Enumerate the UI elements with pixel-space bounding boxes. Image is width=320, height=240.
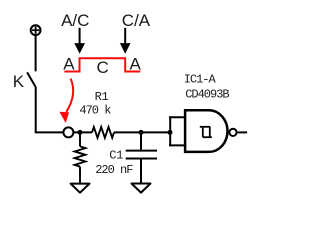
switch K blade — [27, 72, 36, 87]
NAND gate IC1-A CD4093B body — [185, 110, 227, 152]
wire upper input stub — [169, 116, 186, 118]
resistor R1 (horizontal zigzag) — [92, 127, 114, 138]
ground (below pull-down resistor) — [71, 184, 90, 193]
wire from switch down and right to node — [36, 87, 64, 132]
capacitor C1 — [126, 132, 157, 183]
svg-text:C/A: C/A — [122, 11, 151, 30]
output wire — [238, 131, 248, 133]
svg-text:A/C: A/C — [61, 11, 89, 30]
junction dot (gate input) — [168, 130, 173, 135]
red arrow (from waveform to node) — [59, 79, 73, 124]
wire R1 to C1 node — [114, 131, 170, 133]
svg-text:C: C — [97, 58, 109, 77]
svg-text:A: A — [63, 54, 75, 73]
wire from + terminal to switch — [35, 36, 37, 72]
junction dot (node / pull-down resistor) — [78, 130, 83, 135]
junction dot (C1 branch) — [139, 130, 144, 135]
wire node to R1 — [74, 131, 93, 133]
ground (below C1) — [132, 184, 151, 193]
output inversion bubble — [229, 129, 236, 136]
arrow C/A (black, pointing down at falling edge) — [120, 28, 131, 54]
waveform (red pulse A-C-A) — [64, 58, 140, 71]
svg-text:R1: R1 — [95, 90, 109, 104]
arrow A/C (black, pointing down at rising edge) — [74, 28, 85, 54]
svg-text:220 nF: 220 nF — [95, 163, 133, 177]
schmitt hysteresis symbol — [200, 127, 212, 137]
svg-text:K: K — [13, 72, 25, 91]
svg-text:A: A — [130, 54, 142, 73]
svg-text:CD4093B: CD4093B — [185, 88, 229, 102]
pull-down resistor (vertical zigzag) — [75, 132, 86, 183]
gate input tie bar — [169, 116, 171, 146]
node (open circle connector) — [63, 127, 73, 137]
svg-text:470 k: 470 k — [79, 103, 111, 117]
svg-text:C1: C1 — [109, 148, 123, 162]
svg-text:IC1-A: IC1-A — [184, 73, 217, 87]
terminal + (positive supply) — [31, 25, 41, 35]
wire lower input stub — [169, 144, 186, 146]
